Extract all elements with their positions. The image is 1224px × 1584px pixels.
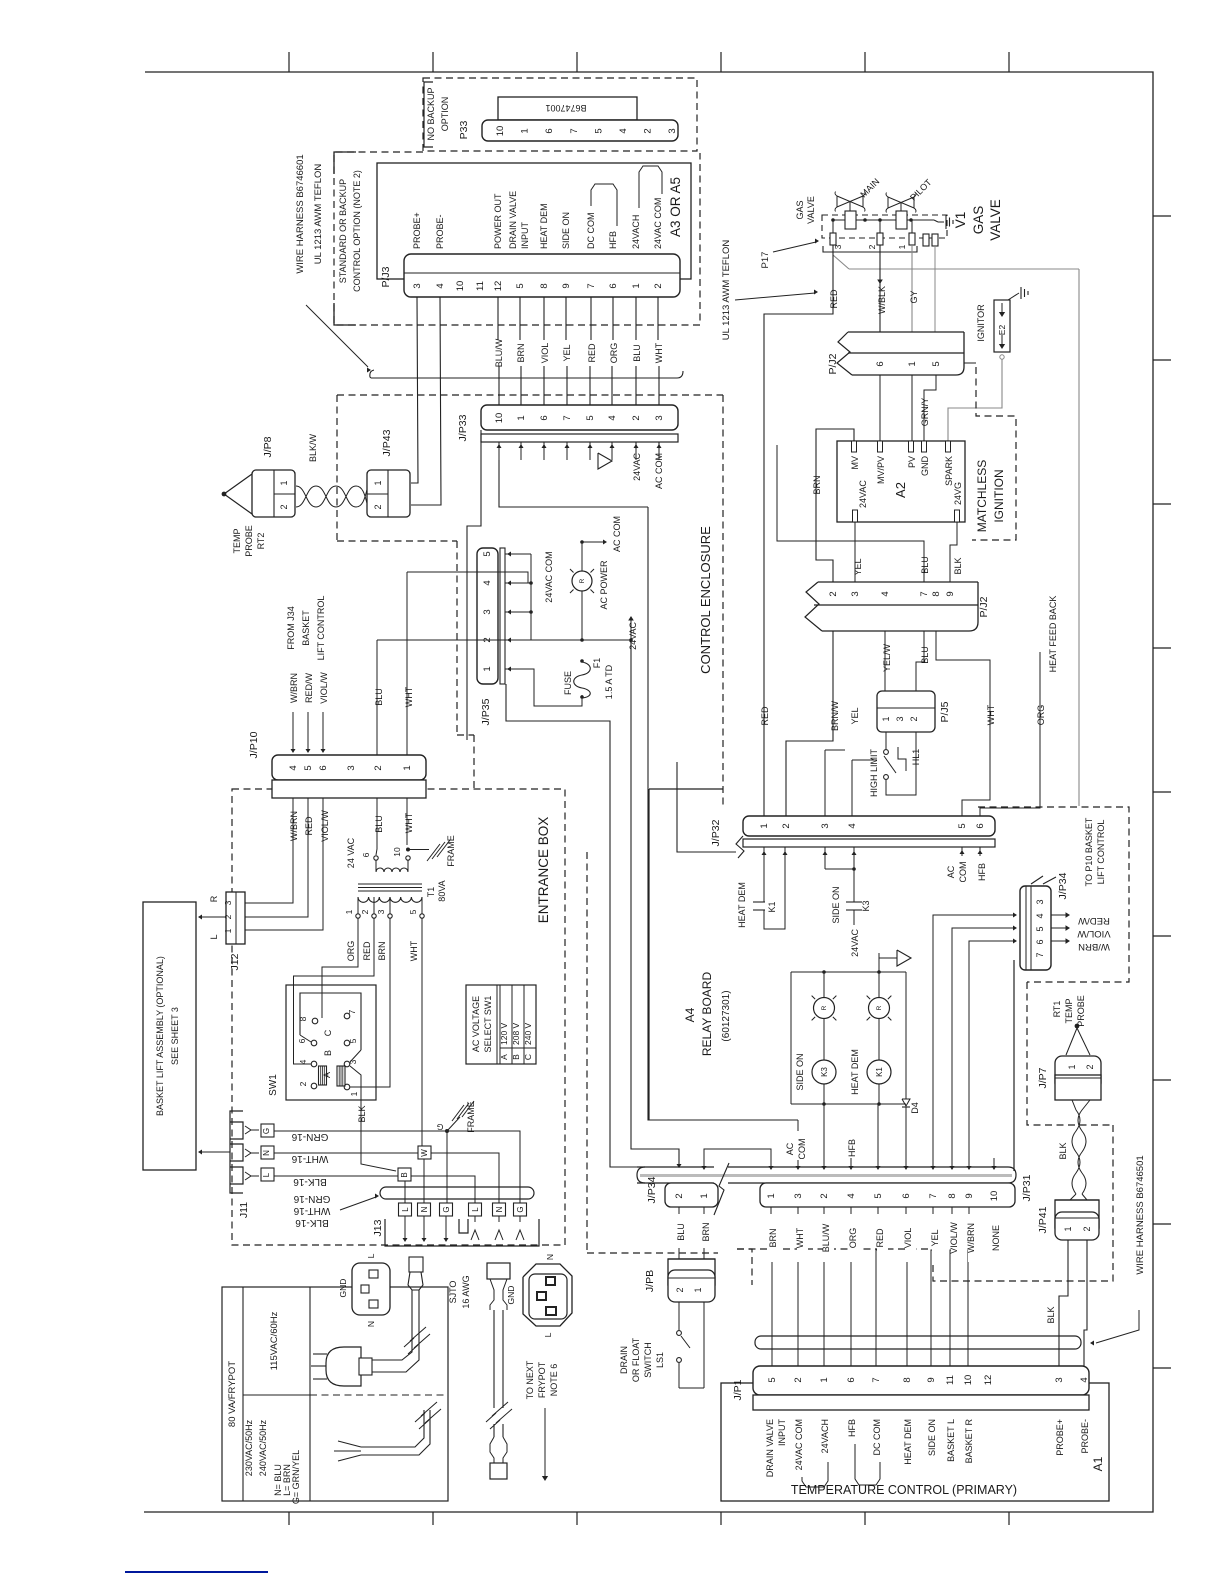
plug 115VAC [326, 1347, 361, 1386]
svg-text:24VAC COM: 24VAC COM [544, 551, 554, 602]
svg-text:LIFT CONTROL: LIFT CONTROL [1096, 820, 1106, 885]
svg-text:VIOL/W: VIOL/W [320, 810, 330, 842]
wire WHT P/J3 to J/P33 [657, 297, 659, 340]
svg-text:WHT-16: WHT-16 [291, 1153, 328, 1164]
svg-text:6: 6 [975, 823, 986, 828]
svg-text:J13: J13 [372, 1219, 384, 1236]
wire VIOL P/J3 to J/P33 [543, 297, 545, 340]
svg-text:B: B [323, 1050, 333, 1056]
svg-text:2: 2 [867, 244, 877, 249]
arrows into J/P31 bus [769, 1166, 774, 1170]
svg-text:J/P8: J/P8 [262, 436, 274, 457]
svg-text:W: W [420, 1149, 429, 1157]
svg-text:SW1: SW1 [268, 1074, 279, 1096]
terminal N J11 [261, 1146, 274, 1159]
harness grommet pill [380, 1187, 534, 1199]
svg-text:N: N [366, 1321, 376, 1327]
svg-text:4: 4 [1035, 913, 1045, 918]
svg-text:DC COM: DC COM [872, 1419, 882, 1456]
svg-text:1: 1 [516, 415, 527, 420]
svg-text:5: 5 [957, 823, 968, 828]
svg-text:9: 9 [964, 1193, 975, 1198]
wire BRN P/J3 to J/P33 [519, 297, 521, 340]
svg-text:7: 7 [871, 1377, 882, 1382]
svg-text:K3: K3 [861, 900, 871, 911]
svg-text:4: 4 [288, 765, 299, 770]
svg-text:FROM J34: FROM J34 [286, 606, 296, 650]
svg-text:CONTROL ENCLOSURE: CONTROL ENCLOSURE [698, 526, 713, 674]
svg-text:2: 2 [631, 415, 642, 420]
svg-text:2: 2 [819, 1193, 830, 1198]
svg-text:PROBE: PROBE [244, 525, 254, 557]
svg-text:GND: GND [506, 1286, 516, 1305]
svg-text:J/P1: J/P1 [732, 1379, 744, 1400]
svg-text:HEAT FEED BACK: HEAT FEED BACK [1048, 596, 1058, 673]
svg-text:POWER OUT: POWER OUT [493, 193, 503, 249]
wire 24VAC A2 to BLU P/J2 lower pin7 [855, 522, 924, 582]
bracket 24VAC COM 24VACH [802, 1462, 828, 1487]
svg-text:LIFT CONTROL: LIFT CONTROL [316, 596, 326, 661]
svg-text:HEAT DEM: HEAT DEM [539, 203, 549, 249]
svg-text:AC: AC [946, 865, 956, 878]
svg-text:DRAIN: DRAIN [619, 1346, 629, 1374]
valve terminals [830, 233, 836, 245]
svg-text:DRAIN VALVE: DRAIN VALVE [508, 191, 518, 249]
svg-text:PROBE-: PROBE- [1080, 1419, 1090, 1454]
wire lamp bottom junction [581, 591, 583, 640]
svg-text:2: 2 [373, 504, 383, 509]
svg-text:MV: MV [850, 456, 860, 470]
svg-text:R: R [876, 1005, 883, 1010]
svg-text:1: 1 [482, 666, 493, 671]
svg-text:RED: RED [362, 941, 372, 961]
svg-text:1: 1 [402, 765, 413, 770]
svg-text:6: 6 [318, 765, 329, 770]
high limit HL1 [885, 732, 887, 749]
svg-text:VIOL: VIOL [903, 1228, 913, 1249]
svg-text:RED/W: RED/W [1078, 915, 1110, 926]
svg-text:L: L [209, 934, 219, 939]
svg-text:HEAT DEM: HEAT DEM [903, 1419, 913, 1465]
svg-text:1: 1 [759, 823, 770, 828]
svg-text:2: 2 [1085, 1064, 1095, 1069]
svg-text:YEL: YEL [853, 558, 863, 575]
break slash J/P34 J/P31 [714, 1163, 729, 1215]
svg-text:208 V: 208 V [511, 1022, 521, 1045]
svg-text:L: L [262, 1172, 271, 1177]
svg-text:VIOL/W: VIOL/W [1077, 928, 1110, 939]
svg-text:P/J2: P/J2 [827, 353, 839, 374]
svg-text:2: 2 [643, 128, 654, 133]
wire enclosure to J/P32 shell [677, 762, 736, 852]
svg-text:BLK-16: BLK-16 [295, 1217, 329, 1228]
svg-text:ORG: ORG [609, 343, 619, 364]
connector J/P31 pins [760, 1183, 1015, 1207]
wire harness bundle line [370, 370, 683, 378]
valve internal wiring [833, 219, 845, 221]
enclosure ENTRANCE BOX [232, 789, 565, 1245]
svg-text:VALVE: VALVE [806, 196, 816, 224]
svg-text:ENTRANCE BOX: ENTRANCE BOX [536, 817, 551, 924]
svg-text:7: 7 [569, 128, 580, 133]
relay lamp R heat dem [877, 970, 881, 974]
svg-text:4: 4 [607, 415, 618, 420]
svg-text:J11: J11 [238, 1202, 250, 1218]
wire 24VAC arrow net [628, 616, 634, 621]
svg-text:COM: COM [958, 862, 968, 883]
wire WHT-16 to W box [274, 1152, 418, 1154]
jumper block A right [337, 1066, 345, 1086]
svg-text:RED: RED [875, 1228, 885, 1248]
cord break 2 [415, 1402, 437, 1422]
svg-text:AC COM: AC COM [612, 516, 622, 552]
svg-text:PROBE+: PROBE+ [412, 212, 422, 249]
output arrows RED/W VIOL/W W/BRN [1051, 914, 1066, 916]
connector J/P43 [367, 470, 410, 517]
svg-text:A1: A1 [1091, 1456, 1105, 1471]
svg-text:1: 1 [766, 1193, 777, 1198]
svg-text:W/BRN: W/BRN [289, 811, 299, 841]
svg-text:IGNITION: IGNITION [992, 469, 1006, 522]
svg-text:1: 1 [349, 1091, 359, 1096]
svg-text:1: 1 [699, 1193, 710, 1198]
svg-text:DC COM: DC COM [586, 213, 596, 250]
wire VIOL/W J/P10-6 to J12-1 [245, 798, 323, 930]
wire BLU/W P/J3 to J/P33 [497, 297, 499, 340]
svg-text:24VAC COM: 24VAC COM [794, 1419, 804, 1470]
wire BLK-16 to B box [274, 1175, 398, 1177]
svg-text:12: 12 [493, 281, 504, 292]
wire G to J13 right G [447, 1131, 520, 1203]
svg-text:J/P34: J/P34 [1057, 872, 1069, 899]
svg-text:BRN: BRN [812, 475, 822, 494]
svg-text:7: 7 [586, 283, 597, 288]
svg-text:P17: P17 [760, 252, 771, 269]
svg-text:1: 1 [344, 909, 354, 914]
module A2 matchless ignition [837, 441, 965, 522]
svg-text:RELAY BOARD: RELAY BOARD [700, 972, 714, 1057]
svg-text:A3 OR A5: A3 OR A5 [668, 177, 683, 237]
connector P/J5 [877, 691, 935, 732]
cord plug end top [409, 1257, 423, 1272]
svg-text:3: 3 [850, 591, 861, 596]
svg-text:8: 8 [931, 591, 942, 596]
svg-text:2: 2 [653, 283, 664, 288]
wire W/BLK valve to P/J2-6 [879, 245, 881, 332]
svg-text:BLK: BLK [1058, 1142, 1068, 1159]
svg-text:D4: D4 [910, 1102, 920, 1114]
svg-text:8: 8 [298, 1016, 308, 1021]
svg-text:115VAC/60Hz: 115VAC/60Hz [269, 1311, 280, 1370]
svg-text:9: 9 [561, 283, 572, 288]
svg-text:24VAC: 24VAC [628, 622, 638, 650]
svg-text:R: R [579, 578, 586, 583]
svg-text:10: 10 [392, 847, 402, 857]
svg-text:24VAC: 24VAC [632, 453, 642, 481]
svg-text:3: 3 [654, 415, 665, 420]
svg-text:1: 1 [1063, 1226, 1073, 1231]
svg-text:3: 3 [833, 244, 843, 249]
svg-text:SEE SHEET 3: SEE SHEET 3 [170, 1007, 180, 1065]
wire K1 coil to J/P31 pin5 [877, 1104, 879, 1169]
svg-text:HEAT DEM: HEAT DEM [737, 882, 747, 928]
wire PROBE- P/J3-4 to J/P43-2 [411, 297, 441, 505]
svg-text:J/P41: J/P41 [1037, 1206, 1049, 1233]
svg-text:BLK: BLK [357, 1105, 367, 1122]
svg-text:4: 4 [298, 1059, 308, 1064]
svg-text:4: 4 [846, 1193, 857, 1198]
svg-text:PV: PV [907, 456, 917, 468]
wire valve aux terminal to P/J2-5 [934, 246, 936, 332]
wire YEL into P/J2 lower pin3 [777, 445, 855, 541]
svg-text:J/P7: J/P7 [1037, 1067, 1049, 1088]
ground FRAME at entrance box [447, 1117, 460, 1131]
svg-text:240 V: 240 V [523, 1022, 533, 1045]
svg-text:WHT: WHT [795, 1227, 805, 1248]
svg-text:ORG: ORG [1036, 705, 1046, 726]
svg-text:5: 5 [348, 1038, 358, 1043]
svg-text:24VACH: 24VACH [820, 1419, 830, 1453]
svg-text:BRN: BRN [516, 343, 526, 362]
svg-text:2: 2 [279, 504, 289, 509]
enclosure NO BACKUP OPTION [423, 78, 697, 151]
connector J/PB [668, 1259, 715, 1285]
wire ORG net to J/P32 pin6 [980, 652, 1040, 816]
connector GND plug left [352, 1263, 390, 1315]
sheet border frame [144, 72, 1153, 1512]
connector P17 bracket [823, 246, 917, 252]
svg-text:RED/W: RED/W [304, 672, 314, 703]
svg-text:CONTROL OPTION (NOTE 2): CONTROL OPTION (NOTE 2) [352, 170, 362, 292]
twisted pair BLK to J/P41 [1070, 1100, 1090, 1200]
svg-text:W/BRN: W/BRN [966, 1223, 976, 1253]
svg-text:1: 1 [881, 716, 891, 721]
connector J/P33 [481, 405, 678, 430]
connector J/P8 [252, 470, 295, 517]
svg-text:1: 1 [897, 244, 907, 249]
wire PV to P/J2-1 [911, 375, 913, 441]
svg-text:GAS: GAS [971, 206, 986, 235]
svg-text:BLU: BLU [920, 556, 930, 574]
svg-text:A2: A2 [893, 482, 908, 498]
svg-text:SIDE ON: SIDE ON [831, 886, 841, 923]
wire BLU J/P34-2 to J/PB-2 [678, 1207, 680, 1259]
svg-text:6: 6 [846, 1377, 857, 1382]
temp probe RT2 [224, 474, 252, 514]
wire lamp to AC COM arrow [581, 542, 583, 571]
svg-text:1: 1 [631, 283, 642, 288]
svg-text:2: 2 [781, 823, 792, 828]
connector J/P32 [736, 836, 744, 858]
svg-text:3: 3 [223, 900, 233, 905]
cord 115VAC [372, 1290, 412, 1360]
svg-text:GRN-16: GRN-16 [291, 1131, 328, 1142]
ignitor E2 [994, 300, 1010, 352]
diode D4 [905, 972, 907, 1099]
wire GRN/Y GND to P/J2-5 [924, 375, 936, 441]
wire HL1 to J/P32 pin4 [851, 760, 853, 816]
svg-text:A4: A4 [683, 1007, 697, 1022]
svg-text:2: 2 [360, 909, 370, 914]
svg-text:W/BRN: W/BRN [1078, 941, 1110, 952]
arrow J12 to basket lift box [200, 916, 226, 918]
svg-text:YEL: YEL [562, 344, 572, 361]
svg-text:NOTE 6: NOTE 6 [549, 1364, 559, 1397]
valve MAIN butterfly [837, 196, 850, 207]
svg-text:6: 6 [1035, 939, 1045, 944]
svg-text:COM: COM [797, 1139, 807, 1160]
svg-text:FRYPOT: FRYPOT [537, 1361, 547, 1398]
ground at valve [938, 221, 944, 223]
svg-text:HFB: HFB [847, 1139, 857, 1157]
svg-text:SPARK: SPARK [944, 456, 954, 486]
svg-text:3: 3 [346, 765, 357, 770]
wire BLU P/J2-7 to P/J5 [916, 631, 924, 691]
svg-text:YEL/W: YEL/W [882, 643, 892, 672]
svg-text:N: N [420, 1206, 429, 1212]
svg-text:V1: V1 [953, 212, 968, 229]
wire RED P/J3 to J/P33 [590, 297, 592, 340]
svg-text:24VACH: 24VACH [631, 215, 641, 249]
svg-text:BLK-16: BLK-16 [293, 1176, 327, 1187]
svg-text:24VAC: 24VAC [858, 480, 868, 508]
svg-text:TO P10 BASKET: TO P10 BASKET [1084, 817, 1094, 886]
svg-text:W/BRN: W/BRN [289, 673, 299, 703]
svg-text:2: 2 [373, 765, 384, 770]
svg-text:A: A [499, 1054, 509, 1060]
wire K3 coil to J/P31 pin2 [823, 1104, 825, 1169]
svg-text:7: 7 [562, 415, 573, 420]
connector outlet N-L right [523, 1264, 572, 1326]
svg-text:TEMP: TEMP [232, 528, 242, 553]
svg-text:3: 3 [1035, 899, 1045, 904]
twisted pair J/P8 to J/P43 [296, 486, 369, 507]
svg-text:L: L [401, 1207, 410, 1212]
wire relay top bus [791, 971, 906, 973]
wire G to J13 left G [446, 1131, 448, 1203]
svg-text:7: 7 [919, 591, 930, 596]
stub NONE J/P31 pin10 [993, 1158, 995, 1167]
svg-text:R: R [209, 895, 219, 902]
svg-text:WHT: WHT [986, 704, 996, 725]
svg-text:SJTO: SJTO [448, 1281, 458, 1304]
svg-text:GAS: GAS [795, 200, 805, 219]
svg-text:80 VA/FRYPOT: 80 VA/FRYPOT [227, 1361, 238, 1427]
table 80 VA/FRYPOT [222, 1287, 448, 1501]
svg-text:FRAME: FRAME [446, 835, 456, 867]
svg-text:GY: GY [909, 290, 919, 303]
svg-text:24 VAC: 24 VAC [346, 837, 356, 868]
wire PROBE+ P/J3-3 to J/P43-1 [411, 297, 418, 483]
svg-text:3: 3 [820, 823, 831, 828]
wire RED T1-2 to SW1-4 [294, 918, 375, 1064]
svg-text:1: 1 [223, 928, 233, 933]
wire MV/PV to P/J2-6 [879, 375, 881, 441]
svg-text:4: 4 [1079, 1377, 1090, 1382]
svg-text:AC: AC [785, 1142, 795, 1155]
wire BRN A2-MV to P/J2 lower pin2 [816, 429, 854, 582]
svg-text:L: L [471, 1207, 480, 1212]
svg-text:AC POWER: AC POWER [599, 560, 609, 610]
svg-text:PROBE+: PROBE+ [1055, 1419, 1065, 1456]
wire J/P33 pin2 24VAC stub [635, 442, 637, 449]
svg-text:J/P10: J/P10 [248, 731, 260, 758]
svg-text:BRN: BRN [701, 1222, 711, 1241]
wire 24VAC long drop to J/P34 [631, 640, 679, 1165]
svg-text:ORG: ORG [346, 941, 356, 962]
relay contact K3 SIDE ON [824, 847, 826, 869]
wire J/P41-2 to J/P1-4 [1084, 1240, 1087, 1366]
svg-text:9: 9 [926, 1377, 937, 1382]
wire RED J/P10-5 to J12-2 [245, 798, 308, 917]
cord SJTO jumper [487, 1263, 510, 1279]
svg-text:B6747001: B6747001 [545, 103, 586, 113]
svg-text:HFB: HFB [847, 1419, 857, 1437]
wire W to J13 right N [431, 1153, 499, 1203]
svg-text:GND: GND [338, 1279, 348, 1298]
wire WHT J/P10-1 to T1-10 [406, 798, 408, 845]
table AC VOLTAGE SELECT SW1 [466, 985, 536, 1064]
connector P/J2 lower [818, 582, 978, 631]
svg-text:P/J3: P/J3 [380, 266, 392, 287]
svg-text:2: 2 [793, 1377, 804, 1382]
enclosure basket lift wiring dashed [978, 807, 1129, 982]
svg-text:WHT: WHT [654, 342, 664, 363]
wire relay bottom bus [791, 1103, 906, 1105]
svg-text:OPTION: OPTION [440, 97, 450, 132]
svg-text:3: 3 [895, 716, 905, 721]
wire E2 to A2 SPARK [1000, 355, 1004, 359]
svg-text:6: 6 [297, 1038, 307, 1043]
connector J13 [385, 1219, 539, 1246]
terminal L J11 [261, 1168, 274, 1181]
wire WHT net to J/P32 pin5 [936, 631, 990, 816]
wire BRN J/P34-1 to J/PB-1 [703, 1207, 705, 1259]
svg-text:MV/PV: MV/PV [876, 456, 886, 484]
svg-text:B: B [511, 1054, 521, 1060]
connector J/P7 [1055, 1056, 1101, 1090]
valve PILOT butterfly [888, 197, 901, 208]
svg-text:11: 11 [475, 281, 486, 291]
wire W/BRN J/P10-4 to J12-3 [245, 798, 293, 903]
svg-text:RT2: RT2 [256, 533, 266, 550]
svg-text:HFB: HFB [977, 863, 987, 881]
svg-text:1: 1 [279, 480, 289, 485]
svg-text:ORG: ORG [848, 1228, 858, 1249]
svg-text:6: 6 [361, 852, 371, 857]
wire BLU J/P10-2 to T1-6 [376, 798, 377, 855]
ground FRAME at T1 [406, 848, 410, 852]
svg-text:3: 3 [482, 609, 493, 614]
svg-text:3: 3 [793, 1193, 804, 1198]
svg-text:BASKET: BASKET [301, 610, 311, 646]
svg-text:1: 1 [373, 480, 383, 485]
svg-text:80VA: 80VA [437, 880, 447, 901]
svg-text:K1: K1 [875, 1067, 884, 1077]
relay coil K1 [878, 1019, 880, 1061]
svg-text:INPUT: INPUT [777, 1418, 787, 1446]
connector P/J3 [404, 254, 680, 297]
connector J12 [226, 892, 245, 944]
svg-text:W/BLK: W/BLK [877, 286, 887, 314]
svg-text:10: 10 [495, 126, 506, 137]
svg-text:TEMP: TEMP [1064, 998, 1074, 1023]
svg-text:3: 3 [1054, 1377, 1065, 1382]
svg-text:HEAT DEM: HEAT DEM [850, 1049, 860, 1095]
svg-text:6: 6 [544, 128, 555, 133]
wire B to J13 left L [404, 1181, 406, 1203]
svg-text:24VG: 24VG [953, 482, 963, 505]
